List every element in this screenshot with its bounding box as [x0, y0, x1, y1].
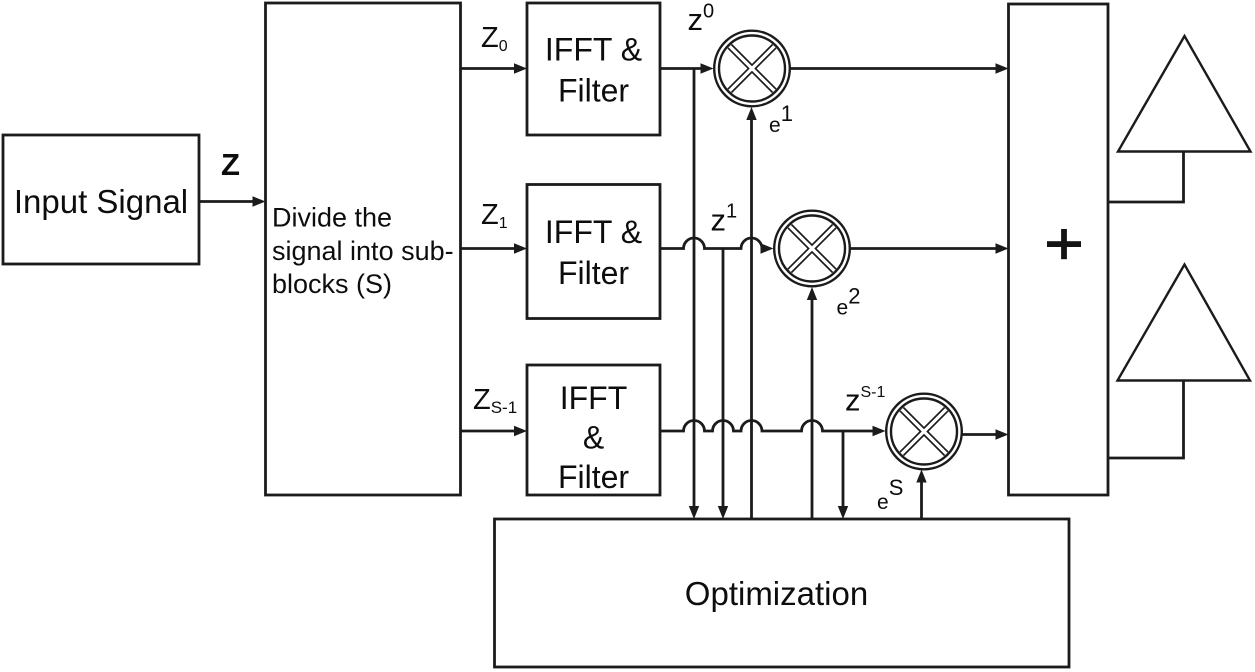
arrowhead: zS-1 tap down into Optimization — [838, 506, 848, 519]
svg-text:&: & — [583, 420, 604, 456]
wire: tap of z1 down to Optimization — [722, 249, 725, 507]
svg-text:Z: Z — [221, 147, 240, 182]
wire: Divide to IFFT3 (ZS-1) — [461, 430, 516, 433]
arrowhead: z1 into M2 — [761, 243, 774, 253]
arrowhead: M1 output into summation — [996, 63, 1009, 73]
arrowhead: into IFFT3 — [514, 426, 527, 436]
label: plus sign in summation box — [1047, 229, 1081, 259]
wire: phase factor e2 from Optimization up to M2 — [811, 300, 814, 520]
arrowhead: into IFFT2 — [514, 243, 527, 253]
arrowhead: zS-1 into M3 — [873, 426, 886, 436]
block: IFFT & Filter box 2 — [527, 185, 660, 319]
wire: Divide to IFFT1 (Z0) — [461, 67, 516, 70]
svg-text:Divide the: Divide the — [272, 203, 392, 233]
arrowhead: into Divide block — [253, 196, 266, 206]
wire: IFFT1 output z0 to multiplier M1 — [660, 67, 702, 70]
wire: summation box to antenna 2 feed — [1108, 381, 1184, 459]
wire: IFFT3 output zS-1 to multiplier M3 (with hops) — [660, 421, 874, 432]
svg-text:IFFT &: IFFT & — [545, 32, 642, 68]
svg-text:Filter: Filter — [558, 255, 629, 291]
multiplier M3 — [886, 394, 962, 470]
arrowhead: M2 output into summation — [996, 243, 1009, 253]
svg-text:Input Signal: Input Signal — [14, 183, 188, 220]
arrowhead: z0 into M1 — [701, 63, 714, 73]
arrowhead: z0 tap down into Optimization — [689, 506, 699, 519]
wire: Input Signal to Divide block (signal Z) — [199, 200, 254, 203]
block: Optimization box — [495, 519, 1070, 667]
block: IFFT & Filter box 1 — [527, 3, 660, 135]
svg-text:blocks (S): blocks (S) — [272, 269, 392, 299]
block: IFFT & Filter box 3 — [527, 365, 660, 495]
wire: Divide to IFFT2 (Z1) — [461, 247, 516, 250]
multiplier M2 — [774, 211, 850, 287]
svg-text:Filter: Filter — [558, 459, 629, 495]
block: Input Signal box — [3, 135, 199, 264]
wire: tap of z0 down to Optimization — [693, 69, 696, 507]
wire: M1 output to summation box — [790, 67, 997, 70]
wire: M2 output to summation box — [850, 247, 997, 250]
svg-text:signal into sub-: signal into sub- — [272, 236, 454, 266]
wire: phase factor e1 from Optimization up to M1 — [750, 120, 753, 520]
wire: tap of zS-1 down to Optimization — [842, 431, 845, 506]
arrowhead: M3 output into summation — [996, 429, 1009, 439]
antenna 1 (top triangle) — [1118, 36, 1251, 152]
svg-text:IFFT &: IFFT & — [545, 214, 642, 250]
arrowhead: e1 up into M1 — [746, 107, 756, 120]
svg-text:Filter: Filter — [558, 73, 629, 109]
svg-text:IFFT: IFFT — [560, 380, 628, 416]
arrowhead: eS up into M3 — [916, 470, 926, 483]
arrowhead: e2 up into M2 — [807, 287, 817, 300]
block: Divide the signal into sub-blocks (S) box — [266, 3, 461, 495]
arrowhead: z1 tap down into Optimization — [718, 506, 728, 519]
arrowhead: into IFFT1 — [514, 63, 527, 73]
wire: M3 output to summation box — [962, 433, 998, 436]
wire: phase factor eS from Optimization up to M3 — [920, 482, 923, 519]
block: summation (+) box — [1009, 4, 1109, 495]
svg-text:Optimization: Optimization — [685, 575, 868, 612]
antenna 2 (bottom triangle) — [1118, 265, 1251, 381]
wire: summation box to antenna 1 feed — [1108, 152, 1184, 203]
multiplier M1 — [714, 31, 790, 107]
wire: IFFT2 output z1 to multiplier M2 (with hops) — [660, 238, 762, 248]
